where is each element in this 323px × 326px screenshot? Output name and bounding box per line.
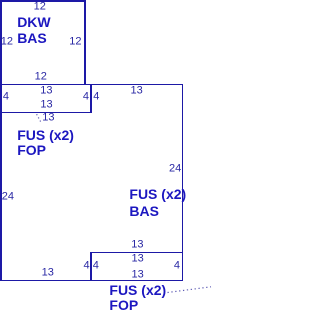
dimension 24 left wall FUS BAS bbox=[2, 191, 14, 202]
dimension 13 bottom inside FUS FOP (upper) bbox=[40, 99, 52, 110]
dimension 4 left inside FUS FOP (lower) bbox=[93, 260, 99, 271]
wall bottom of room FUS FOP (upper) bbox=[0, 112, 92, 114]
leader dotted from label FUS (x2) FOP (lower) bbox=[168, 287, 212, 293]
wall bottom (full width) bbox=[0, 280, 183, 282]
dimension 13 bottom wall left segment bbox=[42, 268, 54, 279]
wall top of room DKW BAS bbox=[0, 0, 86, 2]
wall right (full height of FUS BAS) bbox=[182, 84, 184, 282]
room label DKW BAS bbox=[17, 15, 50, 29]
dimension 13 top wall FUS BAS bbox=[130, 85, 142, 96]
dimension 13 top inside FUS FOP (upper) bbox=[40, 86, 52, 97]
wall top of room FUS FOP (lower) bbox=[90, 252, 183, 254]
room label FUS (x2) FOP (lower) bbox=[109, 283, 166, 297]
dimension 4 left inside FUS BAS bbox=[93, 92, 99, 103]
room label FUS (x2) BAS bbox=[129, 187, 186, 201]
dimension 12 top wall DKW BAS bbox=[34, 2, 46, 13]
dimension 4 right inside FUS FOP (upper) bbox=[83, 92, 89, 103]
wall mid horizontal (bottom of DKW BAS / top of FUS FOP / top of FUS BAS) bbox=[0, 84, 183, 86]
dimension 12 bottom wall DKW BAS bbox=[35, 72, 47, 83]
dimension 4 right inside FUS FOP (lower) bbox=[174, 261, 180, 272]
dimension 13 top inside FUS FOP (lower) bbox=[131, 254, 143, 265]
dimension 13 below FUS FOP (upper) with leader bbox=[42, 113, 54, 124]
dimension 12 right wall DKW BAS bbox=[69, 36, 81, 47]
dimension 13 bottom inside FUS FOP (lower) bbox=[131, 270, 143, 281]
wall right of room DKW BAS bbox=[84, 0, 86, 85]
dimension 12 left wall DKW BAS bbox=[1, 36, 13, 47]
wall right of room FUS FOP (upper) bbox=[90, 84, 92, 114]
leader dotted to dimension 13 below FUS FOP (upper) bbox=[37, 114, 41, 121]
dimension 13 above FUS FOP (lower) bbox=[131, 239, 143, 250]
dimension 24 right wall FUS BAS bbox=[169, 163, 181, 174]
room label FUS (x2) FOP (upper) bbox=[17, 128, 74, 142]
dimension 4 left wall FUS FOP (upper) bbox=[3, 92, 9, 103]
wall left (full height) bbox=[0, 0, 2, 281]
dimension 4 outside left of FUS FOP (lower) bbox=[83, 260, 89, 271]
wall left of room FUS FOP (lower) bbox=[90, 252, 92, 282]
